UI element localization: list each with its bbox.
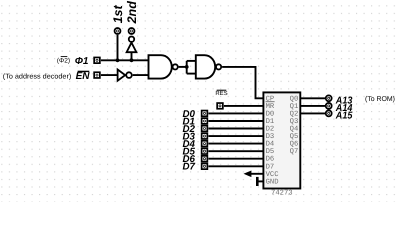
svg-text:A15: A15 [335,111,353,122]
terminal circle 1st [115,28,121,34]
svg-text:Q7: Q7 [290,148,299,156]
junction on Φ1 wire at 2nd [130,58,134,62]
wire D5 [208,150,262,152]
NAND gate 2 body [196,55,215,78]
wire EN to inverter [101,74,118,76]
terminal circle A15 [326,110,332,116]
terminal square D3 [202,133,208,139]
wire split top stub [187,60,197,62]
junction at split [185,65,189,69]
wire Q2 to A15 [300,112,325,114]
svg-text:2nd: 2nd [125,1,139,25]
terminal square D6 [202,156,208,162]
junction on Φ1 wire at 1st [116,58,120,62]
label RES (overline) [215,90,227,97]
svg-text:GND: GND [266,178,279,186]
wire NAND1 out to split [179,66,187,68]
terminal square D7 [202,163,208,169]
wire D4 [208,143,262,145]
ground bar on GND [257,177,262,186]
terminal square D2 [202,126,208,132]
power arrow into VCC [244,171,263,178]
wire D7 [208,165,262,167]
pin MR (overline) [266,102,275,111]
terminal circle A13 [326,95,332,101]
wire NAND2 out to CP [222,67,262,98]
terminal square EN [94,72,100,78]
NAND gate 1 output bubble [173,64,178,69]
wire D0 [208,112,262,114]
IC U1 74273 body [263,92,300,188]
svg-text:(Φ2): (Φ2) [57,57,70,64]
wire inverter to NAND1 [133,74,149,76]
svg-text:EN: EN [76,71,91,82]
terminal square D5 [202,148,208,154]
wire 1st drop [117,35,119,61]
svg-text:(To ROM): (To ROM) [365,95,395,103]
label (Φ2) [57,57,70,65]
svg-text:Φ1: Φ1 [75,56,89,67]
terminal square D4 [202,141,208,147]
terminal square RES [217,103,223,109]
split bar into NAND2 inputs [186,61,188,74]
wire D6 [208,158,262,160]
terminal circle 2nd [129,28,135,34]
terminal square Φ1 [94,57,100,63]
inverter on EN line [118,70,132,81]
wire Q1 to A14 [300,105,325,107]
terminal square D1 [202,118,208,124]
wire RES to MR [224,105,263,107]
svg-text:(To address decoder): (To address decoder) [3,72,72,80]
svg-text:74273: 74273 [271,189,293,197]
terminal circle A14 [326,103,332,109]
wire D2 [208,128,262,130]
label EN (overline) [76,71,91,82]
svg-text:RES: RES [215,90,227,97]
svg-text:D7: D7 [182,162,195,173]
inverter (pointing up) feeding 2nd: bubble [129,37,134,42]
wire D1 [208,120,262,122]
wire Q0 to A13 [300,97,325,99]
wire 2nd drop [131,52,133,60]
wire Φ1 to NAND1 [101,59,149,61]
inverter (pointing up) feeding 2nd: triangle [127,43,137,53]
terminal square D0 [202,111,208,117]
wire split bottom stub [187,73,197,75]
NAND gate 2 output bubble [216,64,221,69]
wire D3 [208,135,262,137]
svg-text:1st: 1st [111,4,125,23]
NAND gate 1 body [149,55,172,78]
